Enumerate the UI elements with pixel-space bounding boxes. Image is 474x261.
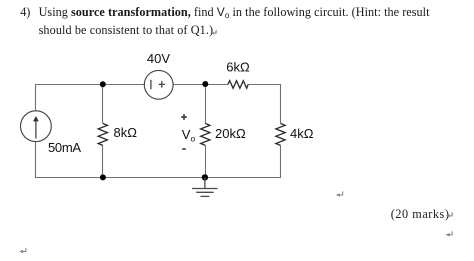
svg-text:should be consistent to that o: should be consistent to that of Q1.) (39, 23, 214, 37)
node B bottom (junction dot) (202, 174, 208, 180)
svg-text:(20 marks): (20 marks) (391, 207, 450, 221)
wire branch 8k lower (102, 145, 104, 177)
pilcrow after line 2 (212, 30, 216, 35)
wire node B to 6k resistor (205, 84, 228, 86)
resistor R4 4k zigzag (276, 123, 285, 145)
wire bottom rail (35, 177, 281, 179)
svg-text:8kΩ: 8kΩ (114, 125, 138, 140)
node A top (junction dot) (100, 81, 106, 87)
wire right side lower (4k to bottom corner) (280, 145, 282, 177)
wire 6k resistor to top right corner (248, 84, 281, 86)
svg-text:4kΩ: 4kΩ (290, 126, 314, 141)
pilcrow below 20 marks (446, 231, 453, 236)
node B top (junction dot) (202, 81, 208, 87)
label plus sign of Vo (181, 114, 187, 120)
wire right side upper (corner to 4k) (280, 84, 282, 123)
svg-text:40V: 40V (147, 51, 170, 66)
wire branch 20k upper (205, 84, 207, 123)
label minus sign of Vo (182, 148, 186, 150)
wire branch 8k upper (102, 84, 104, 123)
wire node A to voltage source (103, 84, 145, 86)
wire voltage source to node B (173, 84, 205, 86)
voltage source V1 (40V) (144, 70, 173, 99)
wire left side upper (corner down to current source) (35, 84, 37, 111)
ground symbol (192, 177, 218, 196)
node A bottom (junction dot) (100, 174, 106, 180)
wire left side lower (current source to bottom corner) (35, 142, 37, 178)
svg-text:50mA: 50mA (48, 140, 81, 155)
problem text line 1 (20, 5, 430, 20)
pilcrow right of circuit (336, 191, 343, 196)
resistor R1 8k zigzag (98, 123, 107, 145)
svg-text:Vo: Vo (182, 127, 196, 144)
svg-text:4): 4) (20, 5, 30, 19)
wire branch 20k lower (205, 145, 207, 177)
resistor R2 6k horizontal zigzag (228, 81, 248, 89)
svg-text:6kΩ: 6kΩ (226, 60, 250, 75)
wire top left segment (corner to node A) (35, 84, 103, 86)
current source I1 (50mA) (21, 111, 52, 142)
pilcrow after 20 marks (446, 212, 453, 217)
svg-text:Using source transformation, f: Using source transformation, find Vo in … (39, 5, 431, 20)
svg-text:20kΩ: 20kΩ (215, 126, 246, 141)
pilcrow bottom left (19, 248, 26, 253)
resistor R3 20k zigzag (201, 123, 210, 145)
